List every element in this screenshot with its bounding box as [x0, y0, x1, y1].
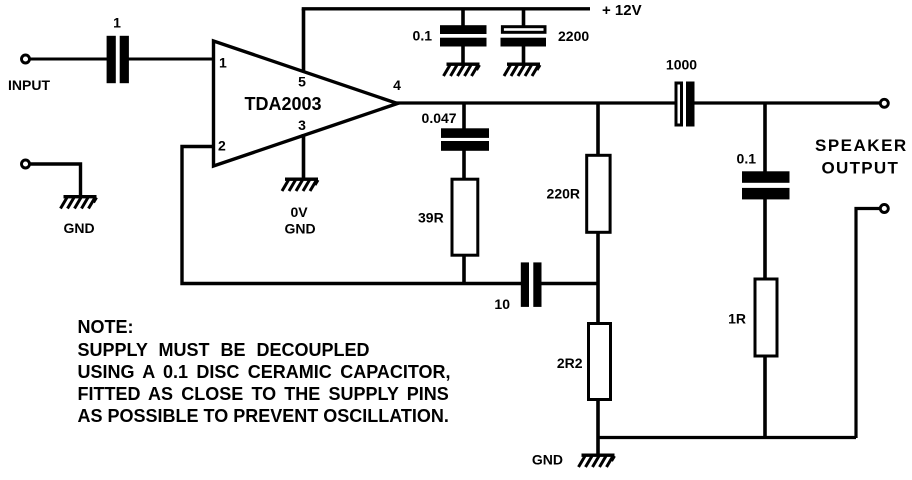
capacitor C3 2200 top plate (electrolytic positive, hollow)	[502, 27, 545, 33]
lower speaker terminal J3	[880, 205, 888, 213]
svg-text:AS POSSIBLE TO PREVENT OSCILLA: AS POSSIBLE TO PREVENT OSCILLATION.	[78, 406, 449, 426]
capacitor C3 2200 bottom plate	[501, 38, 547, 47]
svg-text:3: 3	[298, 117, 306, 133]
capacitor C4 10 left plate	[521, 262, 529, 307]
wire R1 to feedback node	[462, 256, 466, 285]
svg-text:39R: 39R	[418, 210, 444, 226]
wire bottom rail up to lower terminal	[856, 209, 880, 439]
capacitor C1 plate left	[107, 36, 116, 83]
svg-text:GND: GND	[284, 220, 315, 236]
svg-text:2R2: 2R2	[557, 355, 583, 371]
svg-text:SUPPLY MUST BE DECOUPLED: SUPPLY MUST BE DECOUPLED	[78, 340, 370, 360]
wire pin 2 feedback (left and down and right)	[182, 147, 521, 284]
wire C2 to ground	[461, 46, 465, 63]
svg-text:1R: 1R	[728, 311, 746, 327]
svg-text:NOTE:: NOTE:	[78, 317, 134, 337]
wire pin 3 to ground	[302, 134, 306, 178]
resistor R2 220R	[587, 155, 610, 232]
wire C3 to ground	[522, 46, 526, 63]
svg-text:0.1: 0.1	[413, 28, 433, 44]
svg-text:2: 2	[218, 138, 226, 154]
wire C1 to op-amp pin 1	[128, 58, 214, 61]
capacitor C4 10 right plate	[533, 262, 541, 307]
svg-text:+ 12V: + 12V	[602, 2, 642, 19]
wire R3 to ground	[596, 399, 600, 454]
svg-text:OUTPUT: OUTPUT	[822, 159, 900, 178]
ground symbol at pin 3	[282, 178, 318, 192]
svg-text:FITTED AS CLOSE TO THE SUPPLY: FITTED AS CLOSE TO THE SUPPLY PINS	[78, 384, 449, 404]
svg-text:5: 5	[298, 74, 306, 90]
upper speaker terminal J2	[880, 99, 888, 107]
capacitor C5 0.047 top plate	[441, 128, 489, 138]
svg-text:220R: 220R	[547, 186, 580, 202]
wire input terminal to C1	[29, 58, 108, 61]
capacitor C7 0.1 top plate	[742, 171, 790, 183]
svg-text:4: 4	[393, 77, 401, 93]
wire R2 to node A to R3	[596, 233, 600, 325]
wire ground terminal	[29, 164, 81, 196]
svg-text:1: 1	[113, 14, 121, 30]
op-amp U1 TDA2003 body	[214, 41, 398, 166]
wire branch to C7	[763, 103, 767, 172]
svg-text:0.047: 0.047	[422, 110, 457, 126]
wire branch to R2	[596, 103, 600, 156]
svg-text:SPEAKER: SPEAKER	[815, 136, 908, 155]
svg-text:GND: GND	[63, 220, 94, 236]
svg-text:INPUT: INPUT	[8, 77, 50, 93]
wire R4 to bottom rail	[763, 356, 767, 439]
wire rail to C2	[461, 9, 465, 27]
wire bottom ground rail	[598, 436, 856, 439]
capacitor C2 0.1 bottom plate	[440, 38, 487, 47]
svg-text:GND: GND	[532, 452, 563, 468]
ground symbol under C2	[444, 63, 480, 77]
svg-text:TDA2003: TDA2003	[244, 94, 321, 114]
wire C4 to node A	[541, 282, 600, 285]
ground symbol under C3	[504, 63, 540, 77]
capacitor C5 0.047 bottom plate	[441, 141, 489, 151]
wire C5 to R1	[462, 150, 466, 179]
wire rail to C3	[522, 9, 526, 27]
svg-text:1: 1	[219, 55, 227, 71]
svg-text:1000: 1000	[666, 57, 697, 73]
svg-text:USING A 0.1 DISC CERAMIC CAPAC: USING A 0.1 DISC CERAMIC CAPACITOR,	[78, 362, 451, 382]
input ground terminal J4	[22, 160, 30, 168]
electrolytic capacitor C6 1000 left plate (hollow)	[676, 83, 682, 125]
wire pin 5 to +12V rail	[302, 9, 306, 72]
svg-text:10: 10	[494, 296, 510, 312]
svg-text:0V: 0V	[290, 204, 308, 220]
resistor R4 1R	[755, 279, 777, 356]
wire C7 to R4	[763, 199, 767, 279]
wire op-amp output pin 4 to C6	[396, 101, 676, 104]
svg-text:2200: 2200	[558, 28, 589, 44]
resistor R1 39R	[452, 179, 478, 255]
wire C6 to upper speaker terminal	[695, 101, 881, 104]
ground symbol left	[61, 195, 97, 209]
electrolytic capacitor C6 1000 right plate	[686, 82, 695, 127]
capacitor C1 plate right	[120, 36, 129, 83]
input terminal J1	[22, 55, 30, 63]
resistor R3 2R2	[589, 324, 611, 400]
ground symbol bottom	[579, 454, 615, 468]
wire +12V supply rail	[302, 7, 590, 10]
wire branch to C5	[462, 103, 466, 130]
svg-text:0.1: 0.1	[737, 151, 757, 167]
capacitor C2 0.1 top plate	[440, 25, 487, 34]
capacitor C7 0.1 bottom plate	[742, 188, 790, 200]
